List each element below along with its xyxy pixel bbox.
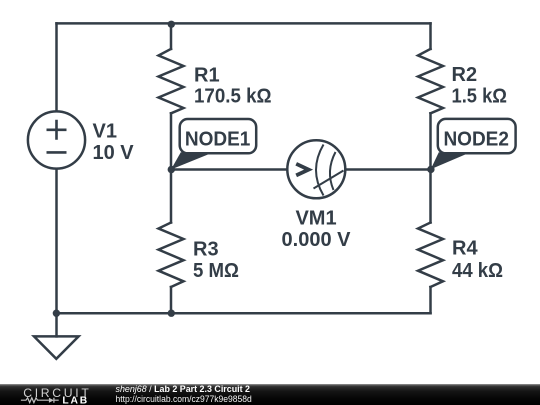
wire right branch top lead xyxy=(429,23,432,49)
wire bottom rail xyxy=(57,312,431,315)
node A NODE1 flag xyxy=(171,119,256,170)
voltmeter VM1 xyxy=(287,140,345,198)
svg-text:44 kΩ: 44 kΩ xyxy=(452,260,503,282)
wire NODE2 to R4 xyxy=(429,170,432,223)
resistor R3 xyxy=(159,223,184,288)
svg-text:VM1: VM1 xyxy=(295,208,336,230)
resistor R1 xyxy=(159,49,184,113)
svg-text:R3: R3 xyxy=(193,238,219,260)
CircuitLab logo wordmark xyxy=(23,386,91,405)
resistor R2 xyxy=(418,49,443,113)
wire NODE1 to voltmeter xyxy=(171,168,287,171)
svg-text:R4: R4 xyxy=(452,237,478,259)
node junction dot bottom middle xyxy=(168,310,175,317)
ground xyxy=(34,336,79,358)
svg-text:V1: V1 xyxy=(93,120,117,142)
wire R2 to NODE2 xyxy=(429,113,432,169)
svg-text:NODE1: NODE1 xyxy=(185,129,251,151)
wire NODE1 to R3 xyxy=(170,170,173,223)
label R4 value xyxy=(452,237,503,282)
svg-text:5 MΩ: 5 MΩ xyxy=(193,260,239,282)
svg-text:10 V: 10 V xyxy=(93,142,135,164)
node junction dot NODE1 xyxy=(168,166,175,173)
node junction dot NODE2 xyxy=(427,166,434,173)
svg-text:http://circuitlab.com/cz977k9e: http://circuitlab.com/cz977k9e9858d xyxy=(116,394,252,405)
wire left branch lower xyxy=(55,169,58,313)
node junction dot bottom left xyxy=(53,310,60,317)
svg-text:170.5 kΩ: 170.5 kΩ xyxy=(194,86,272,108)
label VM1 value xyxy=(282,208,352,251)
node B NODE2 flag xyxy=(431,119,516,169)
label R1 value xyxy=(194,65,272,108)
resistor R4 xyxy=(418,223,443,288)
svg-text:R2: R2 xyxy=(452,64,478,86)
voltage source V1 xyxy=(28,111,85,168)
wire R3 bottom lead xyxy=(170,287,173,313)
svg-text:0.000 V: 0.000 V xyxy=(282,229,352,251)
svg-text:NODE2: NODE2 xyxy=(443,128,509,150)
node junction dot top xyxy=(168,21,175,28)
wire top rail xyxy=(57,22,431,25)
footer bar xyxy=(0,384,540,405)
label R3 value xyxy=(193,238,239,282)
wire middle branch top lead xyxy=(170,23,173,49)
label V1 value xyxy=(93,120,135,164)
svg-text:1.5 kΩ: 1.5 kΩ xyxy=(452,85,508,107)
svg-text:R1: R1 xyxy=(194,65,220,87)
wire ground stem xyxy=(55,313,58,336)
wire R1 to NODE1 xyxy=(170,113,173,169)
wire R4 bottom lead xyxy=(429,287,432,313)
wire left branch upper xyxy=(55,23,58,111)
svg-text:LAB: LAB xyxy=(62,395,89,405)
CircuitLab logo resistor-diode glyph xyxy=(21,398,59,403)
wire voltmeter to NODE2 xyxy=(345,168,430,171)
label R2 value xyxy=(452,64,508,107)
